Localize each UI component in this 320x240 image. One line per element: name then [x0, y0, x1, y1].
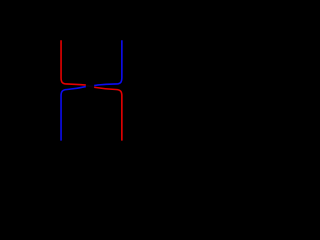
blue curve faint center connector — [86, 86, 94, 87]
blue curve upper-right branch — [94, 40, 122, 85]
red curve faint center connector — [86, 85, 94, 87]
red curve lower-right branch — [94, 87, 122, 140]
red curve upper-left branch — [61, 40, 86, 85]
blue curve lower-left branch — [61, 87, 86, 141]
